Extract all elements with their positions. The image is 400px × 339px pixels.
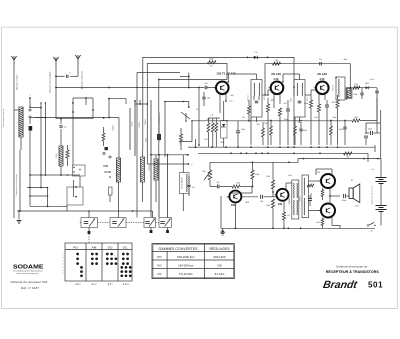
switch table dots (76, 253, 131, 278)
svg-text:5,9-15 Mcs: 5,9-15 Mcs (179, 272, 193, 276)
wire left branch (56, 97, 94, 120)
tuning gang CV4 (159, 217, 172, 228)
transistor T1 (214, 82, 229, 95)
svg-text:150kΩ: 150kΩ (113, 125, 115, 131)
diode D det (365, 82, 369, 89)
switch table frame (65, 243, 132, 281)
detector coil box (346, 88, 352, 99)
capacitor C det1 (375, 88, 379, 98)
switch contact a2 (29, 116, 31, 124)
wire AGC drop (366, 98, 381, 159)
svg-text:5,7v: 5,7v (254, 52, 258, 54)
detector line (347, 87, 377, 89)
wire ferrite top corner (103, 98, 126, 119)
resistor R fb (307, 184, 314, 206)
transistor T3 (314, 82, 329, 95)
svg-text:6,8kΩ: 6,8kΩ (339, 129, 344, 131)
svg-text:220kΩ: 220kΩ (145, 119, 147, 125)
svg-text:47kΩ: 47kΩ (132, 121, 134, 126)
wire bus A (143, 57, 294, 151)
svg-text:100: 100 (346, 157, 349, 159)
wire left net h187 (27, 187, 48, 189)
label T2 (271, 72, 281, 81)
resistor R out bias2 (321, 218, 324, 229)
capacitor C det2 (360, 88, 363, 99)
IF transformer MF1 (251, 80, 262, 118)
resistor R AGC (352, 98, 377, 122)
svg-text:MF2: MF2 (307, 97, 309, 101)
wire antenna bus to T1 base (55, 87, 204, 119)
resistor left ferrite (102, 127, 105, 146)
wire mid verticals (130, 100, 168, 217)
wire left verticals low (20, 140, 48, 211)
wire rail minus (196, 146, 376, 148)
svg-text:PO: PO (73, 245, 78, 249)
svg-text:Réf. n° 4437: Réf. n° 4437 (21, 287, 40, 290)
svg-text:Antenne extérieure: Antenne extérieure (81, 70, 84, 89)
misc value labels IF band (196, 59, 375, 144)
label driver transfo (288, 195, 302, 205)
label values T1 (206, 119, 210, 121)
wire T2 down (274, 94, 280, 109)
svg-text:5: 5 (63, 267, 64, 269)
transistor T7 (319, 204, 335, 218)
wire osc links (183, 154, 189, 211)
svg-text:( une société du groupe ): ( une société du groupe ) (16, 272, 40, 275)
svg-text:220: 220 (287, 215, 290, 217)
oscillator coil box (180, 173, 190, 194)
resistor R det (353, 84, 360, 90)
resistor left 150 (66, 145, 69, 166)
label MF2 (291, 97, 310, 102)
resistor R bus A (0, 0, 1, 1)
wire bus B2 (265, 64, 350, 95)
label T5 (278, 203, 283, 206)
wire T4 base (230, 187, 253, 197)
wire out base top (309, 181, 321, 211)
wire rail left stub (188, 146, 196, 148)
label 150k (113, 125, 115, 131)
svg-text:2.26: 2.26 (274, 78, 279, 81)
svg-text:0,05: 0,05 (204, 83, 208, 85)
svg-text:40kΩ: 40kΩ (209, 59, 214, 61)
Brandt 501 title block (322, 266, 383, 291)
svg-text:109: 109 (278, 203, 283, 206)
wire rail gnd (198, 152, 368, 154)
coil L5 OC (154, 155, 158, 202)
svg-text:1: 1 (63, 254, 64, 256)
svg-text:50µF: 50µF (316, 222, 320, 224)
resistor R bus B2 (273, 60, 281, 65)
wire left horiz 117 (30, 117, 45, 119)
svg-text:600-1400: 600-1400 (214, 255, 226, 259)
wire left sw verticals (40, 102, 46, 150)
label antenne voiture (16, 74, 19, 90)
label T4 (231, 204, 236, 207)
driver transformer (292, 180, 299, 219)
T3 bias cluster (304, 95, 339, 145)
wire gang grounds (136, 73, 138, 218)
resistor R rail (344, 152, 353, 159)
svg-text:6,1 Mcs: 6,1 Mcs (215, 272, 225, 276)
svg-text:12kΩ: 12kΩ (353, 94, 358, 96)
antenna 3 (antenne exterieure) (75, 55, 80, 76)
coil L1 antenne voiture (14, 107, 23, 150)
trimmer CV3 gnd (150, 228, 153, 234)
wire out emitters (329, 188, 340, 204)
wire left net h210 (17, 210, 153, 212)
component mid res (179, 128, 182, 150)
svg-text:k m n: k m n (123, 283, 130, 286)
label T3 (317, 72, 327, 81)
svg-text:154-280 kcs: 154-280 kcs (178, 263, 194, 267)
transistor T2 (269, 82, 284, 95)
switch wiper mid (164, 101, 190, 157)
wire speaker return (353, 196, 367, 212)
output transformer (302, 175, 309, 218)
svg-text:30: 30 (243, 117, 245, 119)
svg-text:1,5Ω: 1,5Ω (355, 206, 359, 208)
volume potentiometer (202, 162, 211, 186)
resistor R MF1 base (247, 100, 250, 121)
label MF1 (248, 95, 267, 101)
wire T3 down (319, 94, 325, 105)
svg-text:GO: GO (108, 245, 113, 249)
wire out coll (316, 169, 332, 226)
capacitor C osc pad (59, 119, 66, 146)
svg-text:2,2v: 2,2v (229, 101, 232, 103)
wire T5 base (270, 192, 277, 197)
wire T1 base vert (180, 73, 190, 88)
label oscillateur (149, 164, 151, 171)
svg-text:MF1: MF1 (264, 96, 266, 100)
tuning gang link dashed (79, 222, 159, 224)
diode thermistor box (221, 101, 228, 147)
wire MF2 links (282, 74, 299, 145)
wire cap to T1 (207, 87, 216, 89)
svg-text:520-1600 Kcs: 520-1600 Kcs (177, 255, 195, 259)
misc value labels audio (226, 172, 354, 224)
svg-text:109: 109 (231, 204, 236, 207)
capacitor C bus B2 (319, 59, 323, 65)
transistor T5 (274, 189, 288, 201)
svg-text:PO: PO (157, 255, 162, 259)
battery B1 (376, 159, 387, 226)
svg-text:2,7v: 2,7v (319, 59, 323, 61)
svg-text:AM: AM (92, 245, 97, 249)
wire T3 base (305, 90, 316, 95)
svg-text:0,65v: 0,65v (288, 175, 292, 177)
svg-text:2G 139: 2G 139 (317, 72, 327, 76)
ground left (17, 210, 22, 223)
svg-text:g h i: g h i (108, 283, 113, 286)
label oscillatrice (158, 112, 161, 142)
switch table row numbers (63, 254, 64, 275)
svg-text:501: 501 (368, 281, 383, 290)
svg-text:2.26: 2.26 (320, 78, 325, 81)
scan blur wrapper (2, 52, 387, 291)
T2 bias cluster (266, 98, 290, 145)
svg-text:+ 6v: + 6v (369, 231, 373, 233)
svg-text:OSCILLATRICE MODULATRICE: OSCILLATRICE MODULATRICE (158, 112, 161, 142)
svg-text:RÉCEPTEUR À TRANSISTORS: RÉCEPTEUR À TRANSISTORS (326, 269, 380, 274)
svg-text:40µF: 40µF (368, 129, 372, 131)
wire MF1 links (228, 74, 257, 145)
component mid box (157, 134, 161, 140)
switch contact box left2 (67, 180, 83, 211)
SODAME logo block (11, 265, 49, 290)
svg-text:GAMMES COUVERTES: GAMMES COUVERTES (159, 247, 199, 251)
svg-text:155 T1 AF 170: 155 T1 AF 170 (216, 72, 236, 76)
wire vol to base (210, 182, 232, 188)
svg-text:OSCILLATEUR: OSCILLATEUR (181, 176, 184, 188)
label coil left (56, 153, 58, 159)
label T1 (216, 72, 236, 76)
switch table letters (75, 283, 129, 286)
label commutateur (15, 174, 18, 196)
svg-text:– 9v: – 9v (370, 169, 374, 171)
wire left net h202 (30, 205, 67, 207)
antenna 2 (antenne telescopique) (53, 57, 58, 88)
svg-text:GO: GO (157, 263, 162, 267)
wire h154 osc (150, 154, 189, 156)
wire left riser (72, 119, 74, 165)
label output transfo (311, 192, 313, 199)
tuning gang CV1 (81, 218, 98, 228)
wire T5 coll (286, 183, 292, 190)
svg-text:OC: OC (123, 245, 128, 249)
capacitor C T1 base gnd (202, 92, 210, 106)
resistor R T5 base dn (266, 199, 275, 229)
svg-text:6,8: 6,8 (64, 127, 67, 129)
svg-text:4: 4 (63, 264, 64, 266)
wire gang to table (88, 228, 91, 244)
capacitor C input T1 (204, 83, 208, 89)
switch contact a1 (29, 95, 31, 111)
wire left net h175 (29, 174, 80, 176)
svg-text:180: 180 (275, 60, 278, 62)
wire gang CV1 feed (88, 211, 90, 218)
svg-text:100kΩ: 100kΩ (300, 196, 302, 202)
resistor R bus B (208, 59, 217, 68)
svg-text:2,2v: 2,2v (210, 115, 213, 117)
wire T5 emitter (282, 200, 290, 228)
svg-text:0,2v: 0,2v (226, 197, 229, 199)
svg-text:40kΩ: 40kΩ (291, 97, 293, 102)
capacitor C coupl T4T5 (241, 195, 270, 203)
wire T1 vert 199 (198, 87, 200, 146)
svg-text:TRANSFO: TRANSFO (288, 195, 291, 205)
capacitor C emitter (236, 121, 246, 148)
gammes couvertes table (152, 244, 234, 279)
label bundle (132, 119, 148, 143)
transistor T6 (319, 174, 335, 188)
resistor R out bias1 (321, 188, 324, 200)
svg-text:4,5v: 4,5v (192, 187, 195, 189)
label -9v (370, 158, 379, 171)
diode D1 bus (254, 52, 258, 59)
capacitor C AGC (366, 129, 380, 136)
svg-text:b: b (191, 164, 192, 166)
svg-text:Brandt: Brandt (322, 279, 358, 291)
wire rail joins (196, 139, 376, 162)
wire T4 stage v (212, 193, 214, 229)
wire T2 base (262, 90, 271, 96)
T1 emitter cluster (207, 115, 220, 148)
resistor R T5 base up (266, 162, 275, 193)
wire h117 to ferrite (30, 108, 119, 158)
trimmer CV4 gnd (166, 228, 169, 234)
svg-text:Commutateur de gammes: Commutateur de gammes (15, 174, 18, 196)
svg-text:100µF: 100µF (342, 200, 347, 202)
wire branch 227 (158, 79, 227, 155)
antenna 1 (antenne voiture) (11, 56, 16, 218)
wire bus A drop 294 (293, 80, 295, 96)
svg-text:Antenne télescopique: Antenne télescopique (49, 71, 52, 93)
capacitor osc (187, 180, 195, 196)
label antenne exterieure (81, 70, 84, 89)
svg-text:RÉGLAGES: RÉGLAGES (210, 246, 231, 251)
svg-text:4 piles rondes de 1,5 v: 4 piles rondes de 1,5 v (371, 185, 374, 204)
switch contact box left (73, 165, 86, 187)
svg-text:6: 6 (63, 270, 64, 272)
resistor R vol (231, 183, 252, 192)
wire AGC (181, 120, 352, 142)
wire detector top (335, 77, 337, 79)
resistor cluster IF extra2 (270, 120, 347, 145)
wire bus C short (137, 72, 180, 74)
IF transformer MF2 (294, 80, 305, 118)
capacitor C AGC2 (364, 132, 368, 145)
svg-text:Antenne voiture: Antenne voiture (16, 74, 19, 90)
capacitor ant3 coupling (55, 73, 78, 78)
wire left net h196 (29, 195, 48, 197)
wire audio top (210, 158, 381, 164)
wire bundle tops (134, 100, 148, 105)
coil L4 GO (141, 150, 145, 202)
wire T4 emitter (234, 202, 236, 228)
label battery (371, 185, 374, 204)
capacitor C out (342, 194, 349, 202)
contact circles mid (103, 152, 111, 158)
svg-text:1: 1 (30, 95, 31, 97)
coil L3 ferrite PO (116, 158, 120, 202)
svg-text:Schéma du récepteur 501: Schéma du récepteur 501 (11, 281, 49, 284)
wire bus B1 (147, 64, 227, 165)
svg-text:a b c: a b c (75, 283, 81, 286)
label MF3 (333, 85, 335, 91)
svg-text:7: 7 (63, 273, 64, 275)
svg-text:270: 270 (210, 66, 213, 68)
resistor cluster IF extra (262, 117, 303, 145)
svg-text:100kΩ: 100kΩ (139, 122, 141, 128)
speaker (349, 184, 360, 208)
switch pad mid (109, 187, 112, 202)
wire det down (346, 88, 348, 100)
label left margin (2, 109, 5, 127)
wire osc b line (147, 163, 192, 166)
svg-text:200: 200 (217, 263, 222, 267)
svg-text:2G 139: 2G 139 (271, 72, 281, 76)
label antenne telescopique (49, 71, 52, 93)
svg-text:Schéma de principe du: Schéma de principe du (336, 266, 368, 269)
svg-text:Prise antenne voiture: Prise antenne voiture (2, 109, 5, 127)
wire audio bottom rail (221, 196, 375, 229)
ground audio (220, 228, 225, 235)
IF transformer MF3 (336, 64, 345, 101)
svg-text:2: 2 (63, 257, 64, 259)
switch contacts mid (103, 165, 111, 178)
switch pad (29, 126, 33, 140)
wire T1 emitter/base down (220, 94, 233, 114)
label 100k rail (180, 140, 182, 146)
svg-text:BOBINE: BOBINE (311, 192, 313, 199)
resistor R T4 coll (251, 162, 260, 187)
svg-text:0,1: 0,1 (196, 109, 199, 111)
tuning gang CV2 (110, 202, 126, 228)
coil L2 gamme (59, 146, 63, 176)
switch on-off (367, 223, 376, 233)
svg-text:OA70: OA70 (365, 82, 369, 85)
svg-text:455 kcs: 455 kcs (333, 85, 335, 91)
svg-text:3: 3 (63, 260, 64, 262)
tuning gang CV3 (144, 211, 156, 228)
transistor T4 (227, 191, 241, 203)
pad left ferrite (105, 147, 108, 150)
wire audio left edge (0, 0, 1, 1)
svg-text:d e f: d e f (92, 283, 97, 286)
svg-text:100kΩ: 100kΩ (180, 140, 182, 146)
svg-text:150kΩ: 150kΩ (56, 153, 58, 159)
